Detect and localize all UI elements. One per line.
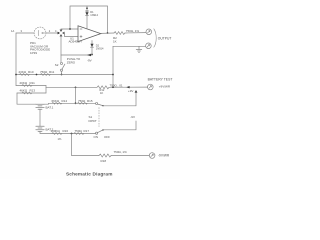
svg-text:-9V: -9V <box>87 58 92 62</box>
switch S1b <box>96 132 98 134</box>
svg-text:100KΩ: 100KΩ <box>51 129 61 133</box>
row1 zero-adjust wire <box>16 74 113 76</box>
resistor R10 <box>20 74 30 76</box>
diode D1 <box>86 6 88 29</box>
svg-text:-9V: -9V <box>130 115 135 119</box>
svg-text:+9V: +9V <box>128 89 133 93</box>
wire S1b to -9V riser <box>104 121 136 130</box>
output wire from op-amp <box>101 32 114 34</box>
bus from output ground down to battery test row <box>112 46 114 87</box>
svg-text:S2: S2 <box>55 63 59 67</box>
arrow +9V riser <box>135 90 138 93</box>
guard junction node arrows <box>58 30 65 37</box>
row3 wire <box>17 92 46 94</box>
svg-text:R14: R14 <box>62 99 68 103</box>
svg-text:BAT.1: BAT.1 <box>46 106 54 110</box>
resistor R16 <box>52 133 62 135</box>
battery test jack <box>148 84 154 90</box>
photodiode PD1 dashed envelope <box>34 27 46 39</box>
svg-text:-9V/WR: -9V/WR <box>158 154 170 158</box>
svg-text:750Ω: 750Ω <box>78 99 86 103</box>
svg-text:750Ω: 750Ω <box>40 70 48 74</box>
battery BAT.1 <box>36 104 44 109</box>
resistor R17 <box>74 133 84 135</box>
svg-text:R16: R16 <box>63 129 69 133</box>
svg-text:R11: R11 <box>49 70 55 74</box>
svg-text:1K: 1K <box>113 39 117 43</box>
svg-text:DPDT: DPDT <box>89 119 97 123</box>
resistor R12 battery test <box>97 86 109 89</box>
wire to battery test jack <box>109 86 148 88</box>
wire junction right to non-inverting input <box>63 33 78 37</box>
svg-text:66KΩ: 66KΩ <box>52 99 60 103</box>
ground <box>138 46 140 49</box>
wire jack2 left <box>113 45 146 47</box>
svg-text:ZERO: ZERO <box>67 60 76 64</box>
wire resistor to output jack <box>125 32 146 34</box>
switch S1a <box>96 102 98 104</box>
svg-text:OFF: OFF <box>104 135 110 139</box>
photodiode cathode <box>37 30 40 35</box>
svg-text:23KΩ: 23KΩ <box>19 70 27 74</box>
wire junction down to S2 <box>60 35 62 63</box>
svg-text:750Ω, .01: 750Ω, .01 <box>110 84 123 88</box>
switch S2 push to zero <box>60 62 62 64</box>
resistor R18 <box>99 154 111 157</box>
svg-text:1K: 1K <box>100 91 103 95</box>
svg-text:R11: R11 <box>30 81 36 85</box>
svg-text:1N914: 1N914 <box>90 13 98 17</box>
svg-text:AD545LH: AD545LH <box>69 39 82 43</box>
wire photodiode to guard junction <box>46 32 60 34</box>
battery2 bottom to row B <box>40 131 96 133</box>
svg-text:1N914: 1N914 <box>96 46 104 50</box>
resistor R2 <box>114 32 125 35</box>
wire junction up to inverting input line <box>61 29 78 32</box>
bottom calibration row <box>72 134 100 156</box>
resistor R15 <box>78 102 88 104</box>
wire S2 top to D2 node with rail arrow <box>61 54 92 56</box>
brace for output jacks <box>154 29 156 47</box>
arrow on battery test wire <box>126 86 129 88</box>
photodiode anode <box>42 32 43 33</box>
svg-text:R13: R13 <box>30 89 36 93</box>
row2 wire <box>16 85 46 87</box>
svg-text:20KΩ: 20KΩ <box>20 81 28 85</box>
output jack J2 <box>146 43 152 49</box>
svg-text:+9V/WR: +9V/WR <box>159 85 171 89</box>
branch bus down to row A <box>75 87 77 103</box>
svg-text:R18: R18 <box>101 159 107 163</box>
resistor R11b <box>22 85 32 87</box>
battery test bus <box>46 86 97 88</box>
resistor R13 <box>22 92 32 94</box>
svg-text:750Ω, 1%: 750Ω, 1% <box>126 29 140 33</box>
svg-text:ON: ON <box>94 135 99 139</box>
svg-text:1A: 1A <box>11 29 14 33</box>
svg-text:BATTERY TEST: BATTERY TEST <box>148 78 173 82</box>
wire row3 down to battery <box>17 93 36 104</box>
feedback loop wire <box>70 6 108 33</box>
svg-text:OUTPUT: OUTPUT <box>158 37 172 41</box>
wire S1a to +9V riser <box>104 93 136 106</box>
svg-text:Schematic Diagram: Schematic Diagram <box>66 172 113 177</box>
svg-text:750Ω, 1%: 750Ω, 1% <box>114 150 128 154</box>
link row2 to row3 <box>45 86 47 94</box>
bottom jack <box>149 153 155 159</box>
gang dashed link S1 <box>98 108 100 127</box>
op-amp U1 <box>78 26 101 42</box>
diode D2 <box>91 41 93 55</box>
svg-text:R15: R15 <box>87 99 93 103</box>
svg-text:750Ω: 750Ω <box>75 129 83 133</box>
wire battery1 top to row A <box>44 102 95 105</box>
resistor R11 <box>41 74 51 76</box>
resistor R14 <box>52 102 62 104</box>
battery BAT.2 <box>36 126 44 131</box>
svg-text:1P39: 1P39 <box>30 51 37 55</box>
wire input corner to photodiode <box>16 33 34 86</box>
svg-text:46KΩ: 46KΩ <box>20 89 28 93</box>
battery link <box>39 109 41 126</box>
output jack J1 <box>146 29 152 35</box>
svg-text:R17: R17 <box>84 129 90 133</box>
svg-text:R10: R10 <box>28 70 34 74</box>
